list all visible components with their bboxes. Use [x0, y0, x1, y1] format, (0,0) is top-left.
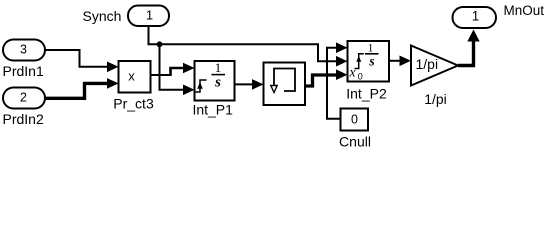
svg-text:1: 1 [472, 9, 480, 24]
svg-text:x: x [128, 69, 135, 84]
svg-text:Int_P2: Int_P2 [346, 86, 387, 102]
svg-text:1: 1 [215, 60, 222, 75]
wire Cnull to Int_P2 top input [327, 42, 348, 118]
wire Synch down and right to Int_P2 trigger [149, 26, 348, 67]
product Pr_ct3 [119, 61, 151, 93]
svg-text:s: s [368, 53, 374, 68]
integrator Int_P2 [348, 41, 390, 82]
wire loop block to Int_P2 (thick) [305, 69, 348, 86]
svg-text:x: x [349, 65, 356, 80]
gain 1/pi [411, 46, 458, 86]
constant Cnull [341, 109, 369, 131]
wire gain to outport (thick, arrow up) [458, 30, 480, 66]
wire Int_P2 to gain [389, 56, 411, 67]
loop block [264, 63, 306, 106]
svg-text:1/pi: 1/pi [424, 91, 447, 107]
svg-text:s: s [214, 75, 221, 91]
svg-text:MnOut: MnOut [504, 3, 545, 18]
inport 1 Synch [128, 6, 169, 27]
svg-text:2: 2 [20, 91, 27, 105]
svg-text:Synch: Synch [83, 8, 122, 24]
svg-text:1/pi: 1/pi [416, 56, 439, 72]
wire branch to Int_P1 lower input [160, 44, 195, 95]
outport 1 MnOut [453, 7, 497, 28]
svg-text:PrdIn2: PrdIn2 [3, 111, 44, 127]
wire product to Int_P1 [151, 63, 195, 76]
inport 3 PrdIn1 [3, 40, 45, 61]
wire from PrdIn2 to product (thick) [45, 78, 119, 98]
svg-text:1: 1 [146, 8, 153, 23]
wire Int_P1 to loop block [235, 79, 264, 90]
svg-text:Cnull: Cnull [339, 134, 371, 150]
integrator Int_P1 [195, 60, 235, 101]
wire from PrdIn1 to product [45, 50, 119, 72]
svg-text:PrdIn1: PrdIn1 [3, 63, 44, 79]
svg-text:0: 0 [351, 112, 358, 126]
svg-text:3: 3 [20, 43, 27, 57]
svg-text:Int_P1: Int_P1 [192, 102, 233, 118]
inport 2 PrdIn2 [3, 88, 45, 109]
junction dot [157, 41, 163, 47]
svg-text:Pr_ct3: Pr_ct3 [113, 96, 154, 112]
svg-text:0: 0 [358, 71, 363, 81]
